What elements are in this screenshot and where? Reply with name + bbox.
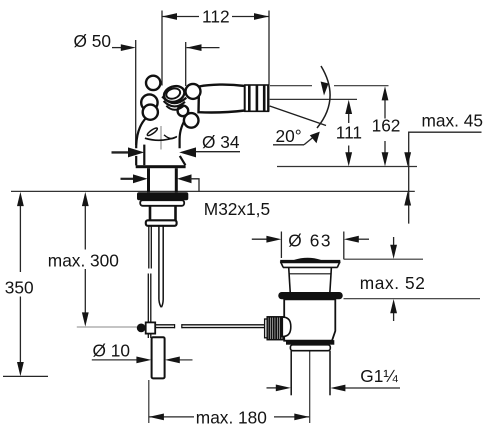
svg-text:350: 350	[5, 277, 34, 297]
svg-text:112: 112	[202, 6, 230, 26]
svg-text:M32x1,5: M32x1,5	[204, 199, 270, 219]
svg-text:max. 52: max. 52	[360, 273, 426, 293]
svg-text:162: 162	[372, 116, 401, 136]
svg-text:max. 300: max. 300	[48, 251, 119, 271]
svg-text:max. 180: max. 180	[196, 408, 267, 428]
svg-text:Ø 50: Ø 50	[74, 31, 111, 51]
svg-text:G1¼: G1¼	[360, 366, 398, 386]
svg-text:Ø 63: Ø 63	[288, 230, 332, 250]
svg-text:max. 45: max. 45	[422, 110, 483, 130]
svg-text:Ø 10: Ø 10	[93, 341, 130, 361]
svg-text:Ø 34: Ø 34	[202, 132, 240, 152]
svg-text:111: 111	[336, 122, 362, 142]
svg-text:20°: 20°	[276, 126, 302, 146]
